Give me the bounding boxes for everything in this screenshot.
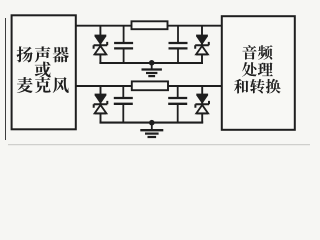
wire: top-left TVS branch bbox=[99, 26, 101, 63]
capacitor: top-right filter cap bbox=[169, 26, 188, 63]
resistor: series element on bottom line bbox=[132, 81, 168, 90]
TVS diode: bottom-left suppressor bbox=[94, 95, 108, 114]
ground rail: bottom section bbox=[100, 122, 204, 124]
wire: bottom-right TVS branch bbox=[201, 86, 203, 123]
wire: top-right TVS branch bbox=[201, 26, 203, 63]
ground: bottom section earth symbol bbox=[140, 123, 163, 137]
text: 音频 (audio) bbox=[242, 45, 272, 60]
scan artifact: faint line along bottom edge bbox=[8, 144, 310, 146]
text: 或 (or) bbox=[35, 62, 51, 78]
block: audio-processing-and-conversion box bbox=[222, 16, 295, 130]
text: 和转换 (and conversion) bbox=[234, 79, 280, 94]
TVS diode: bottom-right suppressor bbox=[195, 95, 209, 114]
wire: bottom-left TVS branch bbox=[100, 86, 102, 123]
capacitor: top-left filter cap bbox=[114, 26, 133, 63]
TVS diode: top-right suppressor bbox=[195, 36, 209, 55]
junction: top ground node dot bbox=[149, 60, 155, 66]
capacitor: bottom-right filter cap bbox=[168, 86, 187, 123]
block: speaker-or-microphone box bbox=[12, 15, 76, 129]
capacitor: bottom-left filter cap bbox=[114, 86, 133, 123]
text: 处理 (processing) bbox=[242, 62, 273, 77]
ground rail: top section bbox=[99, 62, 203, 64]
resistor: series element on top line bbox=[132, 21, 168, 29]
TVS diode: top-left suppressor bbox=[94, 36, 108, 55]
text: 扬声器 (speaker) bbox=[17, 46, 69, 62]
scan artifact: faint vertical line along left edge bbox=[5, 18, 7, 140]
wire: top signal line between blocks bbox=[76, 25, 222, 27]
text: 麦克风 (microphone) bbox=[17, 77, 69, 93]
wire: bottom signal line between blocks bbox=[76, 85, 222, 87]
junction: bottom ground node dot bbox=[149, 120, 155, 126]
ground: top section earth symbol bbox=[142, 63, 162, 76]
